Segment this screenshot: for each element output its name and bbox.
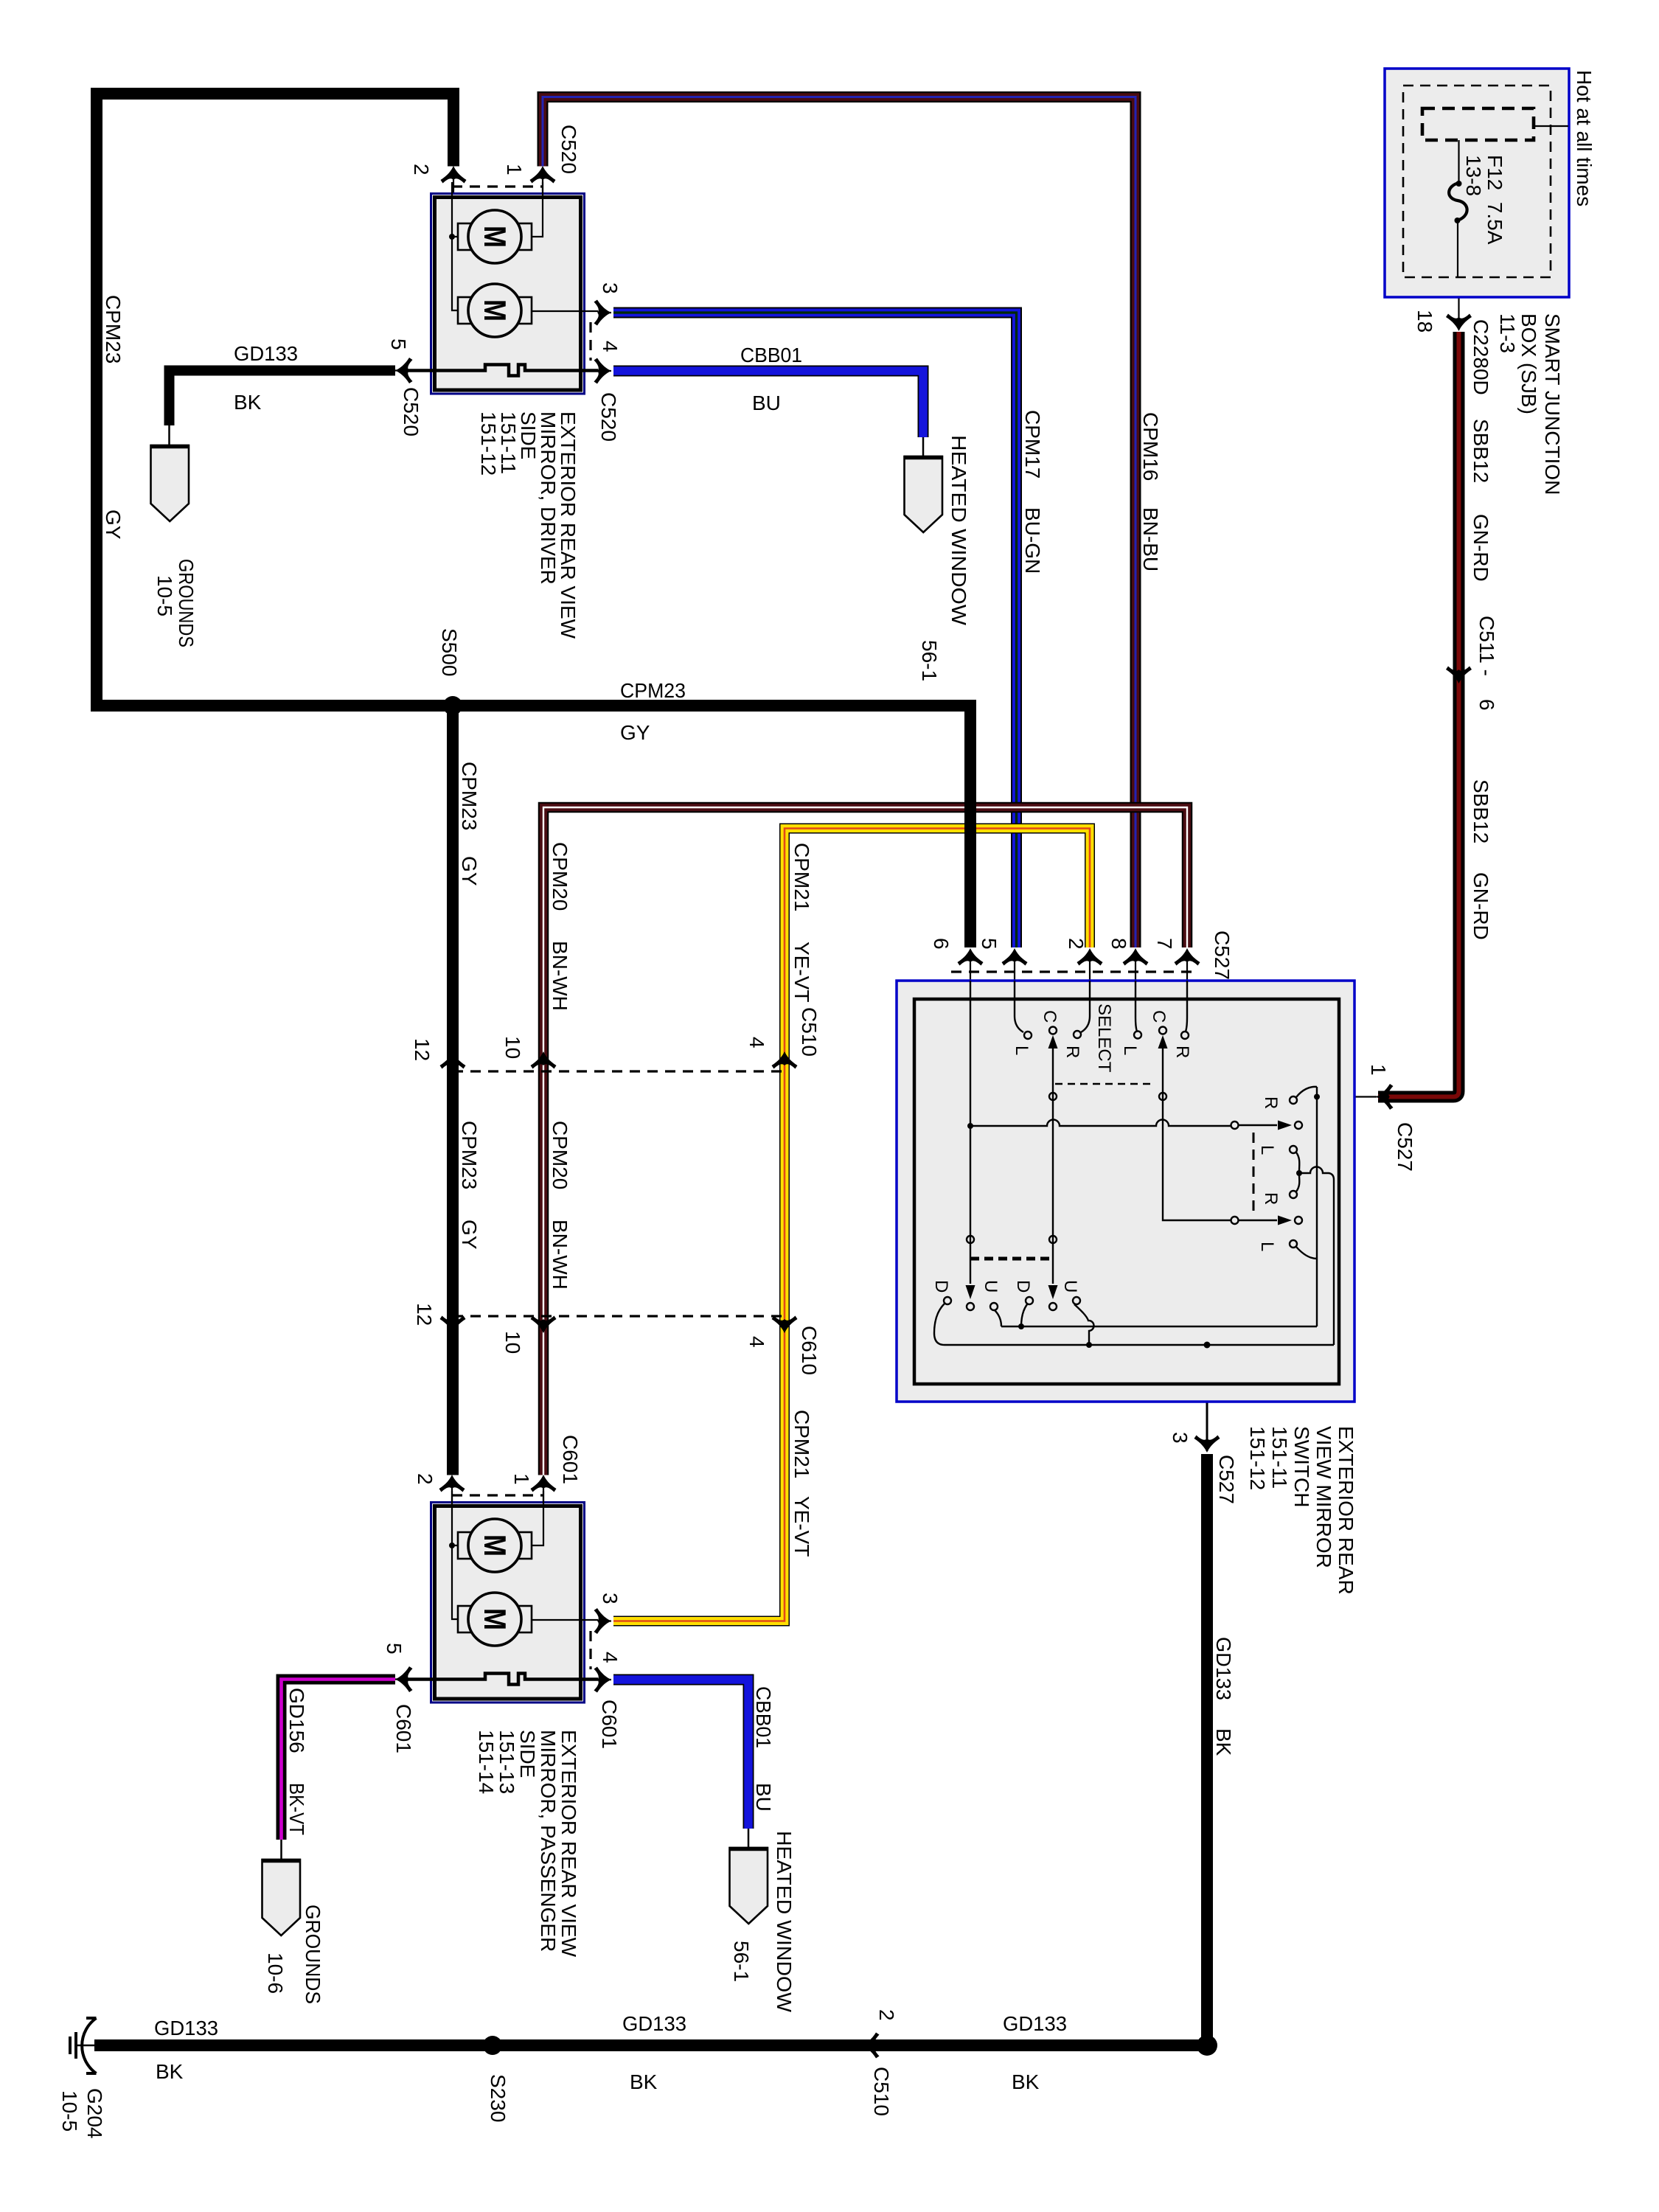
grounds pod 10-5 (driver) [151,445,189,521]
svg-text:GN-RD: GN-RD [1470,872,1492,940]
switch contact below wiper 2 [1049,1303,1057,1310]
svg-text:6: 6 [930,938,953,950]
pin 2 arrow passenger mirror [439,1475,465,1492]
switch contact R (right select) [1181,1032,1189,1039]
wire CBB01 BU: passenger mirror pin 4 to heated window pod 2 [613,1680,748,1829]
svg-text:56-1: 56-1 [730,1941,753,1982]
svg-text:4: 4 [599,341,622,352]
connector C2280D arrow (pin 18) [1446,314,1472,332]
svg-text:CPM21: CPM21 [790,1410,813,1478]
svg-text:CPM23: CPM23 [458,1121,481,1189]
svg-text:BN-BU: BN-BU [1139,507,1162,571]
junction S500 [443,696,462,715]
svg-text:C527: C527 [1394,1122,1416,1172]
svg-text:GROUNDS: GROUNDS [175,559,198,647]
switch rail junction dots [1018,1324,1024,1329]
wire CBB01 BU: driver mirror pin 4 to heated window pod [613,371,923,437]
svg-text:CPM16: CPM16 [1139,412,1162,481]
svg-text:GROUNDS: GROUNDS [302,1905,324,2004]
switch right wiper common (upper) [1231,1121,1239,1129]
svg-text:C2280D: C2280D [1470,319,1492,395]
wire CPM23 GY: splice S500 right then down to switch pin 6 [447,706,970,947]
switch internal: pin 6 feed line down to U/D wiper 1 [970,981,971,1284]
pin leads driver mirror [395,169,611,371]
switch contact L (output lower) [1290,1240,1297,1248]
wire CPM23 GY: splice S500 down to passenger mirror pin 2 [447,706,459,1475]
svg-text:SWITCH: SWITCH [1290,1426,1313,1507]
svg-text:CBB01: CBB01 [752,1686,775,1748]
pin leads switch [970,950,1187,981]
switch mid node jog to return bar [1299,1167,1334,1346]
svg-text:3: 3 [1169,1432,1192,1444]
switch contact R (output lower) [1290,1191,1297,1198]
svg-text:BN-WH: BN-WH [549,1220,571,1290]
switch right wiper pivot (upper) [1295,1121,1302,1129]
connector C601 dashed line (passenger mirror pins 3,4) [589,1631,591,1669]
svg-text:R: R [1261,1096,1281,1109]
pin 4 arrow driver mirror [594,358,612,384]
svg-text:L: L [1012,1046,1032,1055]
svg-text:151-12: 151-12 [1246,1426,1269,1490]
svg-text:GD133: GD133 [622,2012,686,2035]
switch internal: select wiper right line down and to lower-right wiper common [1163,1048,1231,1220]
svg-text:4: 4 [745,1037,768,1048]
connector C510 in-line dashed line [453,1070,785,1072]
switch contact R (left select) [1074,1031,1081,1038]
svg-text:151-12: 151-12 [477,411,500,476]
switch bottom rail 2 [945,1344,1334,1346]
switch right wiper common (lower) [1231,1217,1239,1224]
switch contact L (output upper) [1290,1146,1297,1153]
svg-text:10-6: 10-6 [264,1952,287,1994]
switch internal: U/D mechanical link dashed [970,1257,1053,1261]
pin 3 arrow driver mirror [594,300,612,326]
wire GD133 BK: switch pin 3 down to splice S501 [1201,1454,1213,2045]
svg-text:R: R [1261,1192,1281,1205]
switch blade U2 crossing to bottom rail 2 [1074,1304,1094,1345]
svg-text:4: 4 [745,1336,768,1348]
svg-text:BOX (SJB): BOX (SJB) [1517,313,1540,414]
svg-text:GY: GY [102,509,125,540]
svg-text:SIDE: SIDE [516,1730,539,1778]
switch internal: select wiper left line down to U/D wiper 2 [1052,1048,1054,1284]
connector C510 arrow on ground bus (pin 2) [862,2033,880,2059]
svg-text:GD133: GD133 [1003,2012,1067,2035]
svg-text:BK: BK [630,2070,658,2093]
switch internal: pin 2 hook to select R contact [1081,981,1090,1032]
switch contact below wiper 1 [967,1303,974,1310]
switch internal: SELECT mechanical link dashed [1055,1083,1154,1085]
switch pin 8 arrow [1123,948,1149,966]
switch right wiper pivot (lower) [1295,1217,1302,1224]
svg-text:F12 7.5A: F12 7.5A [1484,155,1506,245]
svg-text:10: 10 [501,1036,524,1059]
svg-text:EXTERIOR REAR VIEW: EXTERIOR REAR VIEW [557,1730,580,1958]
wire GD133 BK ground bus: ground G204 to S230 to C510 to S501 [94,2039,1207,2051]
switch right wiper arrow (lower) [1239,1220,1277,1221]
switch contact L (right select) [1134,1032,1141,1039]
switch internal: top rail from pin6 line to right wiper common [970,1120,1231,1127]
connector C610 in-line dashed line [453,1315,785,1317]
passenger mirror heater element to pins 5 and 4 [408,1674,598,1685]
svg-text:HEATED WINDOW: HEATED WINDOW [773,1831,796,2013]
svg-text:GY: GY [620,721,650,744]
component: exterior rear view mirror switch (box) [897,981,1354,1402]
svg-text:2: 2 [414,1473,437,1485]
svg-text:C601: C601 [559,1435,582,1484]
svg-text:12: 12 [411,1038,434,1061]
motor M (driver vertical) [458,210,532,263]
switch internal: pin 7 hook to select R contact (right section) [1186,981,1187,1032]
motor M (passenger horizontal) [458,1593,532,1646]
svg-text:C510: C510 [870,2067,893,2116]
connector C520 dashed line (driver mirror pins 3,4) [589,322,591,361]
junction S501 [1197,2035,1217,2056]
svg-text:M: M [478,299,512,321]
svg-text:7: 7 [1153,938,1176,950]
switch internal: pin 8 hook to select L contact (right section) [1135,981,1137,1032]
pin 3 lead switch [1206,1345,1208,1451]
switch blade U1 to bottom rail 1 [995,1310,1001,1326]
switch pin 5 arrow [1002,948,1028,966]
switch internal: right section mechanical link dashed [1253,1133,1255,1217]
svg-text:HEATED WINDOW: HEATED WINDOW [947,435,970,626]
wire GD156 BK-VT: passenger mirror pin 5 to GROUNDS pod 10-6 [282,1680,396,1840]
SJB inner dashed boundary [1403,86,1551,277]
connector C510 arrow on CPM21 (pin 4) [772,1051,798,1069]
junction S230 [483,2036,502,2055]
wire SBB12 GN-RD: smart junction box fuse F12 down to switch pin 1 [1378,332,1459,1097]
svg-text:GD133: GD133 [234,342,298,365]
switch internal: junction at feed/top rail [967,1123,973,1129]
svg-text:BU-GN: BU-GN [1021,507,1044,574]
driver mirror heater element to pins 5 and 4 [408,365,598,376]
svg-text:10-5: 10-5 [153,575,176,616]
svg-text:C527: C527 [1211,931,1234,980]
svg-text:C: C [1149,1010,1169,1023]
wire CPM16 BN-BU: driver mirror pin 1 up, right, down to switch pin 8 [543,97,1135,948]
driver mirror internal wiring pin1 [531,182,543,237]
connector C510 arrow on CPM20 (pin 10) [531,1051,557,1069]
wire CPM23 GY: driver mirror pin 2 up/left/down to splice S500 [97,94,453,706]
driver mirror internal wiring pin2 [452,182,459,310]
svg-text:CPM17: CPM17 [1021,410,1044,479]
svg-text:BK: BK [1012,2070,1040,2093]
switch feed bar vertical [1316,1087,1318,1326]
svg-text:C520: C520 [557,125,580,174]
svg-text:R: R [1172,1046,1192,1058]
svg-text:CPM20: CPM20 [549,842,571,911]
pin 2 arrow driver mirror [441,166,467,184]
switch U/D wiper arrow 2 [1048,1285,1058,1299]
connector C610 arrow on CPM20 (pin 10) [531,1316,557,1334]
svg-text:Hot at all times: Hot at all times [1573,70,1596,206]
switch contact R (output upper) [1290,1096,1297,1104]
switch blade L upper to mid node [1296,1152,1299,1171]
component: exterior rear view mirror driver side (box) [431,194,585,394]
svg-text:YE-VT: YE-VT [790,942,813,1002]
svg-text:1: 1 [510,1473,533,1485]
switch select pivot circles on lines [1049,1093,1057,1100]
svg-text:SELECT: SELECT [1094,1004,1114,1073]
svg-text:151-13: 151-13 [495,1730,518,1794]
connector C511 arrow (pin 6) [1446,667,1472,684]
lead to heated window pod 2 [748,1829,750,1848]
switch blade L lower to feed bar [1296,1247,1317,1259]
svg-text:56-1: 56-1 [918,640,941,681]
wire GD133 BK: driver mirror pin 5 to GROUNDS pod [170,371,396,426]
wire CPM17 BU-GN: driver mirror pin 3 right then down to switch pin 5 [613,313,1017,947]
switch wiper arrow (left select) [1048,1035,1058,1048]
svg-text:5: 5 [978,938,1001,950]
svg-text:VIEW MIRROR: VIEW MIRROR [1312,1426,1335,1568]
switch right wiper arrow (upper) [1239,1124,1277,1126]
fuse feed line (hot at all times) [1534,125,1568,127]
svg-text:BU: BU [752,392,781,414]
svg-text:2: 2 [875,2009,898,2021]
switch contact D (section 2) [1026,1297,1033,1304]
svg-text:BN-WH: BN-WH [549,941,571,1011]
switch blade D2 to bottom rail 1 [1021,1304,1027,1326]
svg-text:GD133: GD133 [1212,1637,1235,1700]
svg-text:BK: BK [156,2060,184,2083]
fuse F12 7.5A dashed box [1422,108,1534,140]
pin 4 arrow passenger mirror [594,1667,612,1693]
svg-text:12: 12 [413,1303,436,1326]
pin 5 arrow passenger mirror [395,1666,413,1692]
pin 1 arrow passenger mirror [531,1475,557,1492]
switch pin 6 arrow [958,948,984,966]
svg-text:GY: GY [458,1220,481,1250]
switch contact U (section 1) [990,1303,998,1310]
svg-text:CPM23: CPM23 [102,295,125,364]
svg-text:GD133: GD133 [154,2017,218,2039]
svg-text:CPM20: CPM20 [549,1121,571,1189]
svg-text:C601: C601 [392,1704,415,1753]
svg-text:6: 6 [1475,699,1498,711]
svg-text:5: 5 [383,1643,406,1655]
svg-text:BK-VT: BK-VT [285,1783,308,1835]
svg-text:MIRROR, PASSENGER: MIRROR, PASSENGER [537,1730,560,1952]
switch bottom rail 1 [1001,1326,1317,1327]
switch internal: pin 5 hook to select L contact [1015,981,1023,1032]
svg-text:CPM21: CPM21 [790,843,813,911]
connector C520 dashed line (driver mirror pins 2,1) [452,185,543,187]
svg-text:CPM23: CPM23 [458,762,481,830]
switch pin 3 arrow [1194,1436,1220,1453]
svg-text:SBB12: SBB12 [1470,779,1492,844]
switch blade R lower to mid node [1296,1175,1299,1192]
grounds pod 10-6 (passenger) [262,1860,301,1935]
fuse element F12 [1458,140,1459,183]
motor M (driver horizontal) [458,284,532,337]
svg-text:1: 1 [503,164,526,175]
svg-text:151-14: 151-14 [475,1730,498,1794]
switch contact C pivot (left select) [1049,1027,1057,1034]
switch contact D (section 1) [944,1297,951,1304]
wire CPM20 BN-WH: passenger mirror pin 1 up then right, down to switch pin 7 [543,807,1187,1475]
passenger mirror motor output to pin 3 [532,1619,598,1621]
motor M (passenger vertical) [458,1519,532,1572]
svg-text:CBB01: CBB01 [740,344,802,366]
passenger mirror internal wiring pin1 [531,1491,543,1545]
svg-text:10-5: 10-5 [58,2090,81,2132]
component: exterior rear view mirror passenger side (box) [431,1503,585,1703]
svg-text:R: R [1062,1046,1082,1058]
switch blade D1 to bottom rail 2 [934,1304,945,1345]
lead to grounds pod 2 [280,1840,282,1860]
svg-text:BU: BU [752,1783,775,1812]
svg-text:SMART JUNCTION: SMART JUNCTION [1541,313,1564,495]
pin 5 arrow driver mirror [395,358,413,383]
svg-text:GY: GY [458,856,481,886]
svg-text:3: 3 [599,282,622,294]
svg-text:S500: S500 [438,628,461,676]
switch pin 2 arrow [1077,948,1103,966]
svg-text:M: M [478,1608,512,1630]
pin leads passenger mirror [395,1478,611,1680]
connector C527 dashed line (switch pins 6,5,2,8,7) [951,970,1197,973]
lead to grounds pod 1 [168,425,170,445]
component: smart junction box SJB [1385,69,1569,297]
svg-text:EXTERIOR REAR: EXTERIOR REAR [1335,1426,1357,1595]
svg-text:BK: BK [1212,1728,1235,1756]
svg-text:L: L [1257,1145,1277,1155]
svg-text:C510: C510 [798,1007,821,1057]
connector C510 arrow on CPM23 (pin 12) [440,1051,466,1069]
svg-text:13-8: 13-8 [1462,155,1485,196]
svg-text:C511 -: C511 - [1475,616,1498,676]
svg-text:L: L [1257,1242,1277,1251]
svg-text:S230: S230 [487,2074,509,2122]
driver mirror motor output to pin 3 [532,310,598,312]
svg-text:G204: G204 [83,2088,106,2139]
svg-text:C: C [1040,1010,1060,1023]
pin 1 lead switch [1317,1096,1377,1097]
passenger mirror internal wiring pin2 [452,1491,459,1619]
svg-text:GD156: GD156 [285,1688,308,1753]
fuse output lead to pin 18 [1458,277,1459,330]
svg-text:U: U [981,1280,1001,1293]
svg-text:YE-VT: YE-VT [790,1496,813,1557]
lead to heated window pod 1 [922,437,925,456]
svg-text:C520: C520 [400,387,422,437]
switch contact C pivot (right select) [1159,1027,1166,1034]
svg-text:BK: BK [234,391,262,414]
svg-text:18: 18 [1413,310,1436,333]
wire CPM21 YE-VT: passenger mirror pin 3 right, up, right, down to switch pin 2 [613,829,1090,1621]
svg-text:D: D [1013,1280,1033,1293]
heated window pod 56-1 (passenger) [730,1848,768,1924]
svg-text:3: 3 [599,1593,622,1604]
svg-text:GN-RD: GN-RD [1470,514,1492,582]
connector C610 arrow on CPM23 (pin 12) [440,1316,466,1334]
switch U/D pivot circles [967,1236,974,1243]
svg-text:C527: C527 [1215,1455,1238,1504]
pin 1 arrow driver mirror [530,166,556,184]
connector C610 arrow on CPM21 (pin 4) [772,1316,798,1334]
svg-text:151-11: 151-11 [1268,1426,1291,1489]
switch pin 1 arrow [1376,1084,1394,1110]
svg-text:M: M [478,226,512,248]
svg-text:1: 1 [1367,1064,1390,1076]
switch contact L (left select) [1024,1032,1032,1039]
svg-text:2: 2 [410,164,433,175]
heated window pod 56-1 (driver) [905,456,943,532]
switch contact U (section 2) [1073,1297,1080,1304]
switch mid node dot [1296,1170,1302,1176]
connector C601 dashed line (passenger mirror pins 2,1) [452,1494,543,1496]
svg-text:8: 8 [1107,938,1130,950]
svg-text:D: D [931,1280,951,1293]
svg-text:C610: C610 [798,1326,821,1375]
svg-text:11-3: 11-3 [1496,313,1519,353]
svg-text:5: 5 [387,338,410,350]
svg-text:C601: C601 [598,1700,621,1749]
svg-text:4: 4 [599,1652,622,1663]
svg-text:10: 10 [501,1331,524,1354]
switch U/D wiper arrow 1 [966,1285,975,1299]
switch blade R upper to feed bar [1296,1087,1317,1097]
pin 3 arrow passenger mirror [594,1608,612,1634]
svg-text:2: 2 [1065,938,1088,950]
svg-text:SBB12: SBB12 [1470,419,1492,483]
svg-text:C520: C520 [597,392,620,442]
ground symbol G204 [70,2018,97,2073]
svg-text:U: U [1060,1280,1080,1293]
svg-text:CPM23: CPM23 [620,679,686,702]
svg-text:M: M [478,1534,512,1557]
svg-text:L: L [1120,1046,1140,1055]
switch node pin 1 feed [1314,1094,1320,1100]
switch pin 7 arrow [1175,948,1200,966]
switch wiper arrow (right select) [1158,1035,1168,1048]
